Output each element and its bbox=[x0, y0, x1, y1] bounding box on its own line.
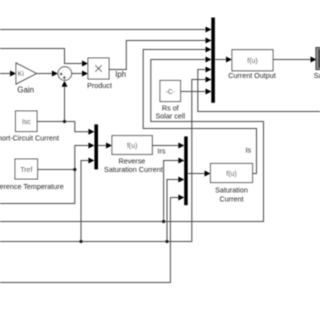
svg-text:-C-: -C- bbox=[165, 89, 175, 96]
svg-text:Saturation: Saturation bbox=[314, 71, 320, 80]
svg-text:Product: Product bbox=[87, 81, 112, 90]
svg-text:Current: Current bbox=[220, 195, 244, 204]
svg-text:Saturation: Saturation bbox=[215, 186, 248, 195]
svg-text:Tref: Tref bbox=[20, 167, 32, 174]
svg-text:Reference Temperature: Reference Temperature bbox=[0, 182, 64, 191]
svg-text:Iph: Iph bbox=[115, 70, 126, 79]
svg-text:f(u): f(u) bbox=[127, 143, 138, 150]
svg-text:Irs: Irs bbox=[158, 146, 166, 155]
svg-text:Current Output: Current Output bbox=[228, 71, 276, 80]
svg-text:Short-Circuit Current: Short-Circuit Current bbox=[0, 134, 59, 143]
svg-text:f(u): f(u) bbox=[226, 171, 237, 178]
svg-text:f(u): f(u) bbox=[247, 58, 258, 65]
svg-text:Solar cell: Solar cell bbox=[156, 112, 186, 121]
svg-text:Isc: Isc bbox=[22, 119, 31, 126]
svg-text:Gain: Gain bbox=[17, 86, 34, 95]
svg-text:Is: Is bbox=[246, 146, 252, 155]
svg-text:Ki: Ki bbox=[18, 71, 25, 78]
svg-text:Reverse: Reverse bbox=[119, 157, 146, 166]
svg-text:Saturation Current: Saturation Current bbox=[104, 165, 163, 174]
